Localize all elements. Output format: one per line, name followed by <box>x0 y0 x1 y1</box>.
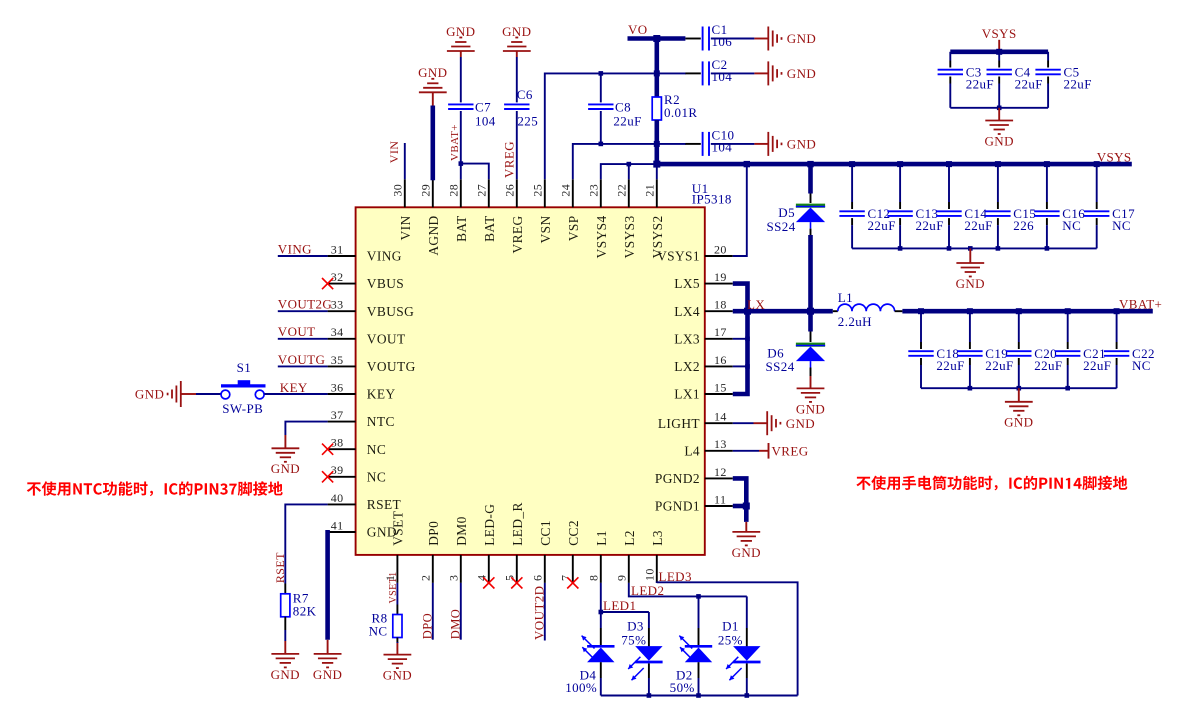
svg-text:CC1: CC1 <box>538 520 553 546</box>
svg-text:VIN: VIN <box>398 215 413 240</box>
wire C15 top <box>997 164 999 209</box>
capacitor C18 <box>908 351 933 356</box>
svg-text:SW-PB: SW-PB <box>222 401 263 416</box>
net label KEY <box>280 380 308 395</box>
LED D2 <box>679 636 712 663</box>
svg-text:L4: L4 <box>684 443 700 458</box>
capacitor C19 <box>957 351 982 356</box>
junction LX node <box>744 308 751 315</box>
svg-text:22uF: 22uF <box>1083 358 1111 373</box>
power port VREG <box>759 443 809 459</box>
ground symbol right of C2 <box>754 61 816 85</box>
C19 labels <box>985 346 1013 373</box>
C13 labels <box>916 206 944 233</box>
wire C22 top <box>1116 311 1118 349</box>
switch S1 labels <box>222 360 263 416</box>
junction VSYS/pin20 <box>744 161 750 167</box>
no-connect X pin 39 <box>322 471 333 482</box>
wire C19 bottom <box>969 358 971 388</box>
svg-text:VSYS3: VSYS3 <box>622 215 637 258</box>
svg-text:24: 24 <box>559 184 573 197</box>
svg-text:GND: GND <box>135 387 164 402</box>
wire C16 bottom <box>1046 218 1048 248</box>
net label VOUT <box>278 324 316 339</box>
wire C8 column top <box>600 73 602 102</box>
wire C7 to pin 28 <box>460 111 462 179</box>
wire net VOUTG at pin 35 <box>278 365 328 367</box>
svg-text:15: 15 <box>714 380 727 394</box>
IC bottom pin numbers <box>383 568 656 581</box>
svg-text:226: 226 <box>1013 218 1034 233</box>
D5 labels <box>767 205 796 234</box>
ground symbol above C6 <box>502 24 531 57</box>
junction VSYS rail C17 <box>1094 161 1100 167</box>
wire D1 column upper <box>746 596 748 646</box>
IC U1 IP5318 body <box>356 207 705 555</box>
svg-text:75%: 75% <box>621 632 646 647</box>
svg-text:VBAT+: VBAT+ <box>1119 296 1162 311</box>
red annotation text right (PIN14) <box>856 476 1127 491</box>
svg-text:34: 34 <box>331 325 344 339</box>
wire pin 10 L3 LED3 <box>657 582 798 695</box>
thick wire VSYS to D5 <box>808 164 813 193</box>
ground symbol below R7 <box>271 641 300 682</box>
svg-text:GND: GND <box>313 667 342 682</box>
capacitor C13 <box>887 211 912 216</box>
thick wire LX bus elbows <box>733 284 748 394</box>
capacitor C10 <box>703 132 709 156</box>
power port VSYS top <box>982 26 1017 52</box>
capacitor C6 <box>504 104 529 109</box>
svg-text:VOUT2G: VOUT2G <box>278 297 332 312</box>
svg-text:VING: VING <box>278 241 312 256</box>
wire D4 column upper <box>600 612 602 646</box>
junction VBAT rail C22 <box>1114 308 1120 314</box>
svg-text:26: 26 <box>503 184 517 197</box>
ground symbol below C20 <box>1004 388 1033 430</box>
svg-text:22uF: 22uF <box>916 218 944 233</box>
IC left pin names <box>367 249 416 540</box>
net label LX <box>747 297 765 312</box>
svg-text:16: 16 <box>714 353 727 367</box>
C8 labels <box>613 99 641 128</box>
svg-text:22: 22 <box>615 184 629 197</box>
svg-text:SS24: SS24 <box>767 219 796 234</box>
capacitor C8 <box>588 104 613 109</box>
capacitor C7 <box>448 104 473 109</box>
svg-text:KEY: KEY <box>367 387 396 402</box>
wire C3 bank bottom rail <box>950 107 1048 109</box>
svg-text:17: 17 <box>714 325 727 339</box>
svg-text:VOUT2D: VOUT2D <box>531 586 546 640</box>
wire C18 bottom <box>920 358 922 388</box>
ground symbol below R8 <box>383 643 412 683</box>
wire C6 to pin 26 <box>516 111 518 179</box>
svg-text:22uF: 22uF <box>1034 358 1062 373</box>
wire LED bottom rail <box>601 695 798 697</box>
junction C3 bank top <box>996 49 1002 55</box>
C5 labels <box>1064 64 1092 91</box>
IC right pin names <box>655 249 700 514</box>
wire net VOUT2G at pin 33 <box>278 310 328 312</box>
svg-text:L2: L2 <box>622 530 637 546</box>
svg-text:VBAT+: VBAT+ <box>449 124 461 161</box>
capacitor C4 <box>987 70 1012 75</box>
ground symbol below pin 41 <box>313 640 342 682</box>
svg-text:38: 38 <box>331 436 344 450</box>
wire C1 to ground <box>711 38 755 40</box>
svg-text:8: 8 <box>587 575 601 581</box>
wire C17 bottom <box>1096 218 1098 248</box>
junction C8 bottom <box>599 142 604 147</box>
svg-text:22uF: 22uF <box>936 358 964 373</box>
junction pin28 branch <box>459 161 464 166</box>
junction C12 bank bottom x949 <box>947 246 952 251</box>
C17 labels <box>1112 206 1135 233</box>
IC U1 reference designator <box>692 181 732 206</box>
R7 labels <box>293 590 317 618</box>
D6 labels <box>766 345 795 374</box>
svg-text:27: 27 <box>475 184 489 197</box>
junction LED bottom rail x746 <box>745 693 750 698</box>
wire C12 top <box>851 164 853 209</box>
svg-text:25%: 25% <box>718 632 743 647</box>
svg-text:GND: GND <box>787 137 816 152</box>
wire C22 bottom <box>1116 358 1118 388</box>
LED D1 <box>726 646 760 680</box>
junction VSYS rail C15 <box>995 161 1001 167</box>
net label LED2 <box>631 583 664 598</box>
wire R8 to ground <box>396 642 398 643</box>
wire pin 37 NTC to ground <box>285 422 327 435</box>
svg-text:S1: S1 <box>237 360 252 375</box>
junction VSYS rail C14 <box>946 161 952 167</box>
inductor L1 2.2uH <box>838 304 895 311</box>
no-connect X pin 4 <box>483 577 494 588</box>
wire C16 top <box>1046 164 1048 209</box>
D5 cathode stub <box>810 194 812 204</box>
svg-text:DPO: DPO <box>420 613 434 639</box>
svg-text:D6: D6 <box>767 345 784 360</box>
svg-text:9: 9 <box>615 575 629 581</box>
svg-text:19: 19 <box>714 270 727 284</box>
svg-text:VSET: VSET <box>390 511 405 546</box>
svg-text:VOUTG: VOUTG <box>278 352 326 367</box>
capacitor C17 <box>1084 211 1109 216</box>
resistor R8 <box>393 615 402 638</box>
wire D3 column upper <box>648 612 650 647</box>
R8 pin stub bottom <box>396 638 398 644</box>
wire GND to C6 <box>516 57 518 102</box>
C22 labels <box>1132 346 1155 373</box>
IC top pin names <box>398 215 665 258</box>
svg-text:GND: GND <box>786 416 815 431</box>
ground symbol left of S1 <box>135 381 196 407</box>
junction C18 bank bottom x1018 <box>1017 386 1022 391</box>
wire C18 bank bottom rail <box>921 387 1117 389</box>
wire pin 9 L2 down <box>629 583 747 597</box>
junction VSYS rail C16 <box>1044 161 1050 167</box>
svg-text:DMO: DMO <box>448 609 462 639</box>
no-connect X pin 38 <box>322 444 333 455</box>
junction VBAT rail C18 <box>918 308 924 314</box>
IC right pin stubs 11-20 <box>705 256 733 506</box>
svg-text:LED3: LED3 <box>659 569 692 584</box>
IC bottom pin stubs 1-10 <box>397 555 656 583</box>
wire pin 14 LIGHT to ground <box>733 422 754 424</box>
junction C18 bank bottom x969 <box>968 386 973 391</box>
svg-text:37: 37 <box>331 408 344 422</box>
IC right pin numbers <box>714 242 727 506</box>
svg-text:23: 23 <box>587 184 601 197</box>
svg-text:L1: L1 <box>594 530 609 546</box>
wire pin 8 L1 down <box>600 583 602 612</box>
svg-text:KEY: KEY <box>280 380 308 395</box>
svg-text:LX4: LX4 <box>674 304 700 319</box>
svg-text:L1: L1 <box>838 290 853 305</box>
svg-text:2.2uH: 2.2uH <box>838 314 872 329</box>
svg-text:104: 104 <box>475 113 496 128</box>
net label VBAT+ <box>1119 296 1162 311</box>
svg-text:LX: LX <box>747 297 765 312</box>
net label VOUT2G <box>278 297 332 312</box>
svg-text:NC: NC <box>367 442 386 457</box>
wire C5 bottom <box>1047 77 1049 108</box>
svg-text:6: 6 <box>531 575 545 581</box>
svg-text:NC: NC <box>369 624 388 639</box>
svg-text:VSN: VSN <box>538 215 553 243</box>
C15 labels <box>1013 206 1036 233</box>
wire pin 16 to LX bus <box>733 365 748 367</box>
wire KEY from S1 to pin 36 <box>264 393 327 395</box>
C18 labels <box>936 346 964 373</box>
svg-text:225: 225 <box>517 113 538 128</box>
net label VSYS right <box>1097 150 1132 165</box>
wire net VOUT at pin 34 <box>278 338 328 340</box>
C12 labels <box>868 206 896 233</box>
diode D5 SS24 <box>796 206 825 222</box>
wire C21 bottom <box>1067 358 1069 388</box>
wire pin 40 RSET to R7 <box>285 504 327 583</box>
switch S1 SW-PB <box>221 380 266 399</box>
junction LED1 <box>599 610 604 615</box>
IC top pin stubs 21-30 <box>405 179 657 207</box>
svg-text:LED-G: LED-G <box>482 504 497 546</box>
junction LED bottom rail x698 <box>696 693 701 698</box>
diode D6 SS24 <box>796 345 825 361</box>
svg-text:12: 12 <box>714 465 727 479</box>
svg-text:LX1: LX1 <box>674 387 700 402</box>
svg-text:18: 18 <box>714 298 727 312</box>
svg-text:VIN: VIN <box>387 141 401 164</box>
svg-text:VSYS4: VSYS4 <box>594 215 609 258</box>
svg-text:30: 30 <box>391 184 405 197</box>
wire D1 column lower <box>746 663 748 695</box>
capacitor C12 <box>839 211 864 216</box>
wire DPO from pin 2 <box>432 583 434 640</box>
capacitor C3 <box>938 70 963 75</box>
wire R7 to ground <box>284 630 286 641</box>
ground symbol right of C10 <box>754 132 816 156</box>
svg-text:NC: NC <box>1112 218 1131 233</box>
svg-text:VSYS: VSYS <box>982 26 1017 41</box>
capacitor C5 <box>1035 70 1060 75</box>
junction VSYS rail C13 <box>897 161 903 167</box>
no-connect X pin 32 <box>322 278 333 289</box>
svg-text:LX5: LX5 <box>674 276 700 291</box>
svg-text:LIGHT: LIGHT <box>658 416 700 431</box>
wire D2 column upper <box>698 596 700 646</box>
junction LX bus pin 16 <box>745 364 750 369</box>
svg-text:13: 13 <box>714 437 727 451</box>
svg-text:39: 39 <box>331 463 344 477</box>
wire pin 1 VSET to R8 <box>396 583 398 605</box>
IC left pin numbers <box>331 242 344 532</box>
svg-text:GND: GND <box>271 667 300 682</box>
C2 labels <box>712 57 733 84</box>
capacitor C14 <box>936 211 961 216</box>
net label VBAT+ <box>449 124 461 161</box>
wire pin 24 VSP riser <box>573 144 657 179</box>
C7 labels <box>475 99 496 128</box>
wire C12 bottom <box>851 218 853 248</box>
junction C12 bank bottom x900 <box>898 246 903 251</box>
wire DMO from pin 3 <box>460 583 462 640</box>
svg-text:31: 31 <box>331 242 344 256</box>
svg-text:41: 41 <box>331 518 344 532</box>
svg-text:GND: GND <box>787 31 816 46</box>
thick wire pin 41 GND <box>325 530 330 640</box>
wire pin 22 riser <box>628 164 630 179</box>
wire C18 top <box>920 311 922 349</box>
svg-text:VSYS2: VSYS2 <box>650 215 665 258</box>
svg-text:22uF: 22uF <box>613 113 641 128</box>
wire pin 20 to VSYS rail <box>733 164 747 256</box>
net label VING <box>278 241 312 256</box>
D3 labels <box>621 619 646 648</box>
wire C13 bottom <box>899 218 901 248</box>
junction VSYS rail C12 <box>849 161 855 167</box>
junction C2 line <box>654 70 660 76</box>
thick wire PGND <box>733 478 747 522</box>
thick wire VBAT+ rail <box>902 309 1152 314</box>
junction VBAT rail C20 <box>1016 308 1022 314</box>
net label LED1 <box>603 598 636 613</box>
svg-text:GND: GND <box>732 545 761 560</box>
svg-text:NTC: NTC <box>367 414 395 429</box>
svg-text:104: 104 <box>712 140 733 155</box>
svg-text:GND: GND <box>956 276 985 291</box>
svg-text:50%: 50% <box>670 680 695 695</box>
svg-text:33: 33 <box>331 298 344 312</box>
net label VOUT2D <box>531 586 546 640</box>
wire pin 13 L4 to VREG <box>733 450 759 452</box>
svg-text:VBUSG: VBUSG <box>367 304 414 319</box>
wire C3 top <box>949 52 951 68</box>
svg-text:DM0: DM0 <box>454 516 469 545</box>
svg-text:GND: GND <box>383 668 412 683</box>
ground symbol below C4 <box>985 108 1014 149</box>
svg-text:22uF: 22uF <box>964 218 992 233</box>
wire C15 bottom <box>997 218 999 248</box>
svg-text:VREG: VREG <box>772 443 809 458</box>
junction R2/C10 line <box>654 141 660 147</box>
svg-text:BAT: BAT <box>482 215 497 242</box>
IC top pin numbers <box>391 184 657 197</box>
svg-text:36: 36 <box>331 380 344 394</box>
C10 labels <box>712 128 735 155</box>
C1 pin stub <box>685 38 700 40</box>
junction LED bottom rail x648 <box>647 693 652 698</box>
svg-text:D5: D5 <box>778 205 795 220</box>
svg-text:22uF: 22uF <box>1064 77 1092 92</box>
svg-text:VING: VING <box>367 249 402 264</box>
wire pin 23 riser <box>601 164 657 179</box>
thick wire pin 29 to GND <box>430 106 435 181</box>
capacitor C22 <box>1104 351 1129 356</box>
svg-text:GND: GND <box>796 401 825 416</box>
ground symbol right of C1 <box>754 27 816 51</box>
R2 labels <box>664 92 697 120</box>
C2 pin stub <box>685 72 700 74</box>
wire C14 top <box>948 164 950 209</box>
svg-text:L3: L3 <box>650 530 665 546</box>
wire C21 top <box>1067 311 1069 349</box>
junction VO <box>653 35 660 42</box>
D2 labels <box>670 667 695 695</box>
junction C12 bank bottom x1046 <box>1045 246 1050 251</box>
svg-text:25: 25 <box>531 184 545 197</box>
svg-text:NC: NC <box>1132 358 1151 373</box>
svg-text:21: 21 <box>643 184 657 197</box>
svg-text:PGND2: PGND2 <box>655 471 700 486</box>
no-connect X pin 5 <box>511 577 522 588</box>
wire C17 top <box>1096 164 1098 209</box>
wire pin 30 VIN <box>404 143 406 179</box>
wire C19 top <box>969 311 971 349</box>
thick wire VO down to R2 <box>654 39 659 98</box>
D6 cathode stub <box>810 332 812 343</box>
wire D2 column lower <box>698 662 700 695</box>
svg-text:100%: 100% <box>565 680 597 695</box>
thick wire LX to D6 <box>808 311 813 331</box>
resistor R7 <box>281 594 290 617</box>
net label DPO <box>420 613 434 639</box>
svg-text:LX2: LX2 <box>674 359 700 374</box>
svg-text:IP5318: IP5318 <box>692 192 732 207</box>
wire C20 top <box>1018 311 1020 349</box>
wire C10 to ground <box>711 143 755 145</box>
svg-text:D1: D1 <box>722 619 739 634</box>
svg-text:VREG: VREG <box>510 215 525 253</box>
C10 pin stub <box>685 143 700 145</box>
D6 anode stub <box>810 361 812 376</box>
D1 labels <box>718 619 743 648</box>
junction VSYS corner <box>653 161 660 168</box>
ground symbol below PGND <box>732 522 761 560</box>
capacitor C2 <box>703 61 709 85</box>
wire branch to pin 27 <box>461 164 489 180</box>
R8 labels <box>369 610 388 638</box>
wire pin 25 VSN riser <box>545 73 657 179</box>
svg-text:C7: C7 <box>475 99 491 114</box>
thick wire LX horizontal <box>733 309 833 314</box>
svg-text:NC: NC <box>367 469 386 484</box>
wire D4 column lower <box>600 662 602 695</box>
C1 labels <box>712 22 733 49</box>
svg-text:GND: GND <box>787 66 816 81</box>
svg-text:3: 3 <box>447 575 461 581</box>
